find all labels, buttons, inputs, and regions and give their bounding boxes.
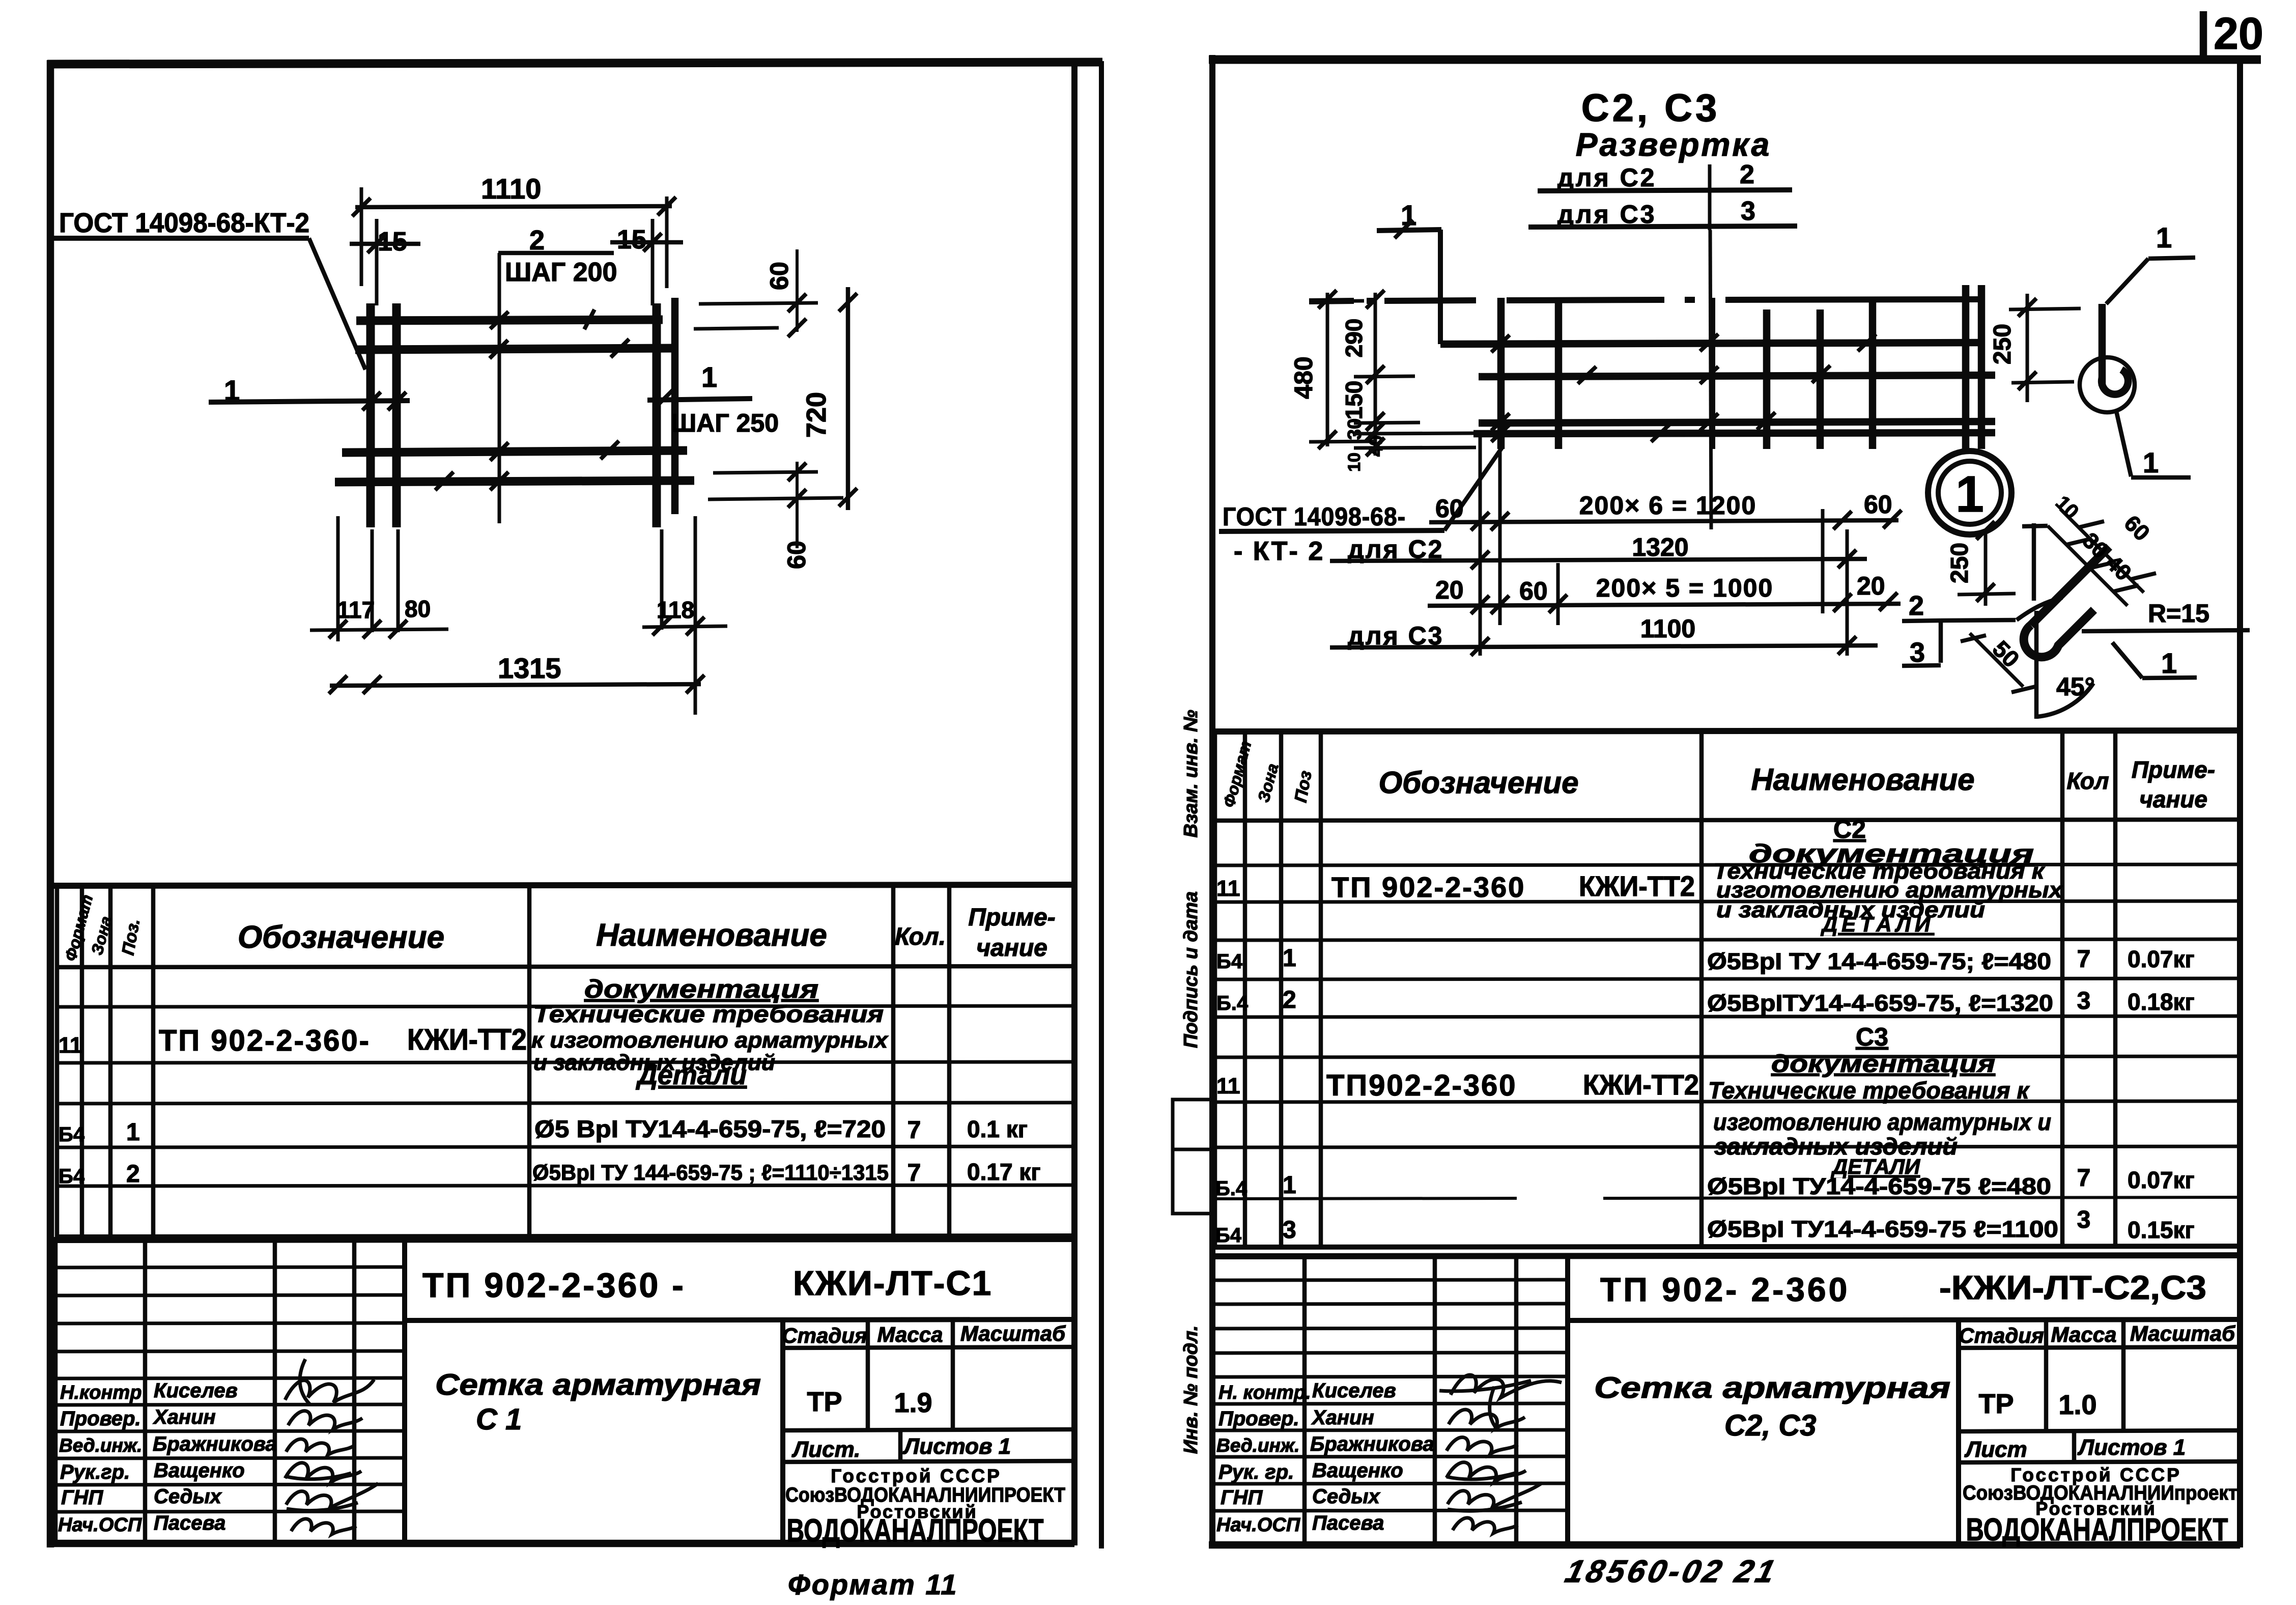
svg-text:Листов 1: Листов 1 bbox=[902, 1434, 1011, 1459]
mesh C1 vertical wire b bbox=[392, 303, 401, 527]
svg-text:ГНП: ГНП bbox=[1221, 1486, 1263, 1509]
variant table dlya S2 / dlya S3 bbox=[1528, 160, 1797, 230]
left table row: documentation header bbox=[531, 975, 889, 1075]
svg-text:2: 2 bbox=[1283, 987, 1296, 1013]
svg-text:Седых: Седых bbox=[154, 1485, 222, 1508]
svg-text:1: 1 bbox=[1955, 466, 1984, 523]
dimension 117 bbox=[310, 597, 448, 638]
svg-text:1: 1 bbox=[701, 361, 717, 393]
svg-text:Стадия: Стадия bbox=[1959, 1324, 2044, 1347]
fold line (dash-dot) bbox=[1309, 299, 1978, 301]
svg-text:Ø5ВрI ТУ 14-4-659-75; ℓ=480: Ø5ВрI ТУ 14-4-659-75; ℓ=480 bbox=[1707, 948, 2051, 974]
svg-text:1.9: 1.9 bbox=[894, 1388, 932, 1418]
svg-text:Ø5ВрI ТУ14-4-659-75 ℓ=480: Ø5ВрI ТУ14-4-659-75 ℓ=480 bbox=[1707, 1173, 2051, 1199]
svg-text:ДЕТАЛИ: ДЕТАЛИ bbox=[1821, 912, 1934, 936]
dimension 60 top right (rotated) bbox=[694, 249, 818, 337]
svg-text:60: 60 bbox=[1435, 494, 1464, 523]
svg-text:КЖИ-ТТ2: КЖИ-ТТ2 bbox=[1583, 1068, 1699, 1101]
svg-text:ТП902-2-360: ТП902-2-360 bbox=[1326, 1069, 1517, 1102]
svg-text:150: 150 bbox=[1341, 381, 1367, 420]
svg-text:Кол: Кол bbox=[2066, 768, 2109, 794]
svg-text:ГНП: ГНП bbox=[61, 1486, 103, 1509]
svg-text:Б.4: Б.4 bbox=[1215, 1177, 1248, 1200]
section labels 2 / 3 with bracket bbox=[1902, 590, 2016, 668]
svg-text:С 1: С 1 bbox=[476, 1403, 522, 1436]
svg-text:Госстрой СССР: Госстрой СССР bbox=[831, 1466, 1002, 1486]
svg-text:Ø5 ВрI ТУ14-4-659-75, ℓ=720: Ø5 ВрI ТУ14-4-659-75, ℓ=720 bbox=[534, 1115, 886, 1142]
leader 1 bottom right bbox=[2112, 642, 2197, 679]
svg-text:ВОДОКАНАЛПРОЕКТ: ВОДОКАНАЛПРОЕКТ bbox=[1966, 1512, 2228, 1547]
svg-text:Обозначение: Обозначение bbox=[238, 920, 444, 955]
left stadia box bbox=[782, 1318, 1074, 1548]
R=15 label bbox=[2082, 599, 2250, 631]
section mark 1 top left (right sheet) bbox=[1377, 199, 1441, 238]
left signatures bbox=[285, 1359, 378, 1534]
dim row 20 | 60 | 200x5=1000 | 20 bbox=[1428, 572, 1901, 614]
svg-text:11: 11 bbox=[1216, 1074, 1240, 1099]
svg-text:С2, С3: С2, С3 bbox=[1724, 1409, 1817, 1442]
svg-text:Бражникова: Бражникова bbox=[1310, 1433, 1434, 1455]
svg-text:1100: 1100 bbox=[1640, 614, 1695, 643]
right stadia box bbox=[1959, 1319, 2240, 1547]
svg-text:к изготовлению арматурных: к изготовлению арматурных bbox=[531, 1028, 889, 1053]
svg-text:0.15кг: 0.15кг bbox=[2128, 1217, 2195, 1243]
svg-text:КЖИ-ТТ2: КЖИ-ТТ2 bbox=[1579, 870, 1695, 902]
svg-text:Сетка арматурная: Сетка арматурная bbox=[1594, 1371, 1950, 1404]
svg-text:60: 60 bbox=[1519, 577, 1548, 605]
svg-text:7: 7 bbox=[2077, 946, 2091, 973]
svg-text:КЖИ-ТТ2: КЖИ-ТТ2 bbox=[407, 1023, 527, 1056]
dimension extension verticals bbox=[1480, 437, 1847, 656]
svg-text:R=15: R=15 bbox=[2148, 599, 2209, 628]
svg-text:ТП 902-2-360: ТП 902-2-360 bbox=[1331, 871, 1525, 903]
svg-text:Б.4: Б.4 bbox=[1216, 992, 1249, 1015]
svg-text:ТП 902-2-360-: ТП 902-2-360- bbox=[159, 1024, 371, 1057]
svg-text:Рук.гр.: Рук.гр. bbox=[60, 1461, 130, 1483]
GOST 14098-68--KT-2 label (right sheet) bbox=[1219, 447, 1503, 566]
svg-text:Наименование: Наименование bbox=[596, 918, 827, 953]
svg-text:200× 5 = 1000: 200× 5 = 1000 bbox=[1596, 574, 1774, 602]
svg-text:290: 290 bbox=[1341, 319, 1367, 358]
dimension 118 bbox=[642, 597, 727, 635]
left table detail row 2 bbox=[59, 1159, 1041, 1188]
svg-text:Листов 1: Листов 1 bbox=[2077, 1435, 2186, 1460]
svg-text:ТР: ТР bbox=[807, 1387, 842, 1417]
right signatures bbox=[1439, 1375, 1562, 1533]
svg-text:20: 20 bbox=[1435, 576, 1464, 604]
svg-text:80: 80 bbox=[405, 596, 431, 622]
dimension 1315 bbox=[329, 652, 704, 694]
svg-text:1: 1 bbox=[2161, 647, 2177, 679]
svg-text:20: 20 bbox=[1857, 572, 1885, 600]
right title: Setka armaturnaya S2,S3 bbox=[1594, 1371, 1950, 1442]
svg-text:Стадия: Стадия bbox=[782, 1324, 867, 1347]
top right hook detail bbox=[2080, 221, 2195, 478]
right table detail row 2 bbox=[1216, 987, 2195, 1016]
page number 20 tick bbox=[2200, 11, 2207, 60]
svg-text:1315: 1315 bbox=[498, 652, 561, 684]
svg-text:11: 11 bbox=[59, 1033, 82, 1058]
svg-text:ШАГ 200: ШАГ 200 bbox=[505, 258, 617, 287]
mesh C1 vertical wire c bbox=[653, 303, 661, 527]
svg-text:ТП 902-2-360 -: ТП 902-2-360 - bbox=[422, 1266, 686, 1305]
svg-text:250: 250 bbox=[1989, 324, 2016, 364]
svg-text:Седых: Седых bbox=[1312, 1485, 1381, 1508]
left sheet outer edge line bbox=[1099, 61, 1104, 1548]
dimension 15 right bbox=[610, 219, 683, 305]
rotated margin labels bbox=[1180, 710, 1202, 1454]
mesh C1 horizontal wire 1 bbox=[356, 320, 663, 321]
svg-text:изготовлению арматурных и: изготовлению арматурных и bbox=[1713, 1109, 2051, 1135]
wire tick marks bbox=[435, 309, 629, 490]
mesh C1 vertical wire a bbox=[366, 303, 375, 527]
right sheet frame bbox=[1209, 55, 2261, 1547]
svg-text:Взам. инв. №: Взам. инв. № bbox=[1180, 710, 1202, 838]
diagonal dims 10 30 40 60 bbox=[2048, 492, 2156, 606]
right name rows bbox=[1216, 1379, 1434, 1536]
svg-text:3: 3 bbox=[1910, 637, 1925, 668]
svg-text:Масса: Масса bbox=[2051, 1322, 2117, 1346]
svg-text:Вед.инж.: Вед.инж. bbox=[59, 1435, 142, 1456]
svg-text:3: 3 bbox=[1283, 1217, 1296, 1244]
svg-text:Технические требования к: Технические требования к bbox=[1708, 1077, 2030, 1104]
left spec table grid bbox=[50, 885, 1074, 1237]
svg-text:Пасева: Пасева bbox=[1312, 1512, 1384, 1534]
diagonal dim 50 bbox=[1961, 633, 2037, 692]
svg-text:Приме-: Приме- bbox=[968, 904, 1055, 931]
mesh S2 bent edge outline bbox=[1438, 230, 1443, 344]
svg-text:Наименование: Наименование bbox=[1751, 763, 1974, 797]
svg-text:Технические требования: Технические требования bbox=[533, 1001, 884, 1027]
right table detail row 3 bbox=[1215, 1165, 2195, 1200]
svg-text:0.07кг: 0.07кг bbox=[2128, 1167, 2195, 1193]
svg-text:Пасева: Пасева bbox=[154, 1512, 225, 1534]
svg-text:ВОДОКАНАЛПРОЕКТ: ВОДОКАНАЛПРОЕКТ bbox=[787, 1513, 1044, 1548]
left name rows bbox=[58, 1379, 277, 1536]
svg-text:2: 2 bbox=[1740, 160, 1754, 189]
svg-text:118: 118 bbox=[657, 597, 694, 623]
mesh C1 horizontal wire 2 bbox=[355, 348, 675, 350]
svg-text:Вед.инж.: Вед.инж. bbox=[1216, 1435, 1299, 1456]
mesh S2 vertical wires bbox=[1501, 285, 1981, 449]
left title block grid bbox=[50, 1239, 1074, 1543]
right spec table grid bbox=[1212, 730, 2240, 1247]
svg-text:7: 7 bbox=[908, 1117, 921, 1144]
svg-text:ТР: ТР bbox=[1978, 1389, 2014, 1419]
section line 1-1 left bbox=[209, 374, 410, 410]
svg-text:документация: документация bbox=[584, 975, 818, 1003]
mesh C1 horizontal wire 4 bbox=[335, 481, 694, 482]
svg-text:Рук. гр.: Рук. гр. bbox=[1218, 1461, 1294, 1483]
svg-text:Обозначение: Обозначение bbox=[1378, 766, 1578, 800]
svg-text:Б4: Б4 bbox=[1216, 950, 1243, 973]
dimension 15 left bbox=[350, 219, 420, 305]
svg-text:10: 10 bbox=[1345, 453, 1364, 472]
svg-text:С3: С3 bbox=[1856, 1023, 1888, 1051]
top right hook dim 250 bbox=[1989, 294, 2081, 402]
left table row TP 902-2-360 bbox=[59, 1023, 527, 1058]
right table detail row 1 bbox=[1216, 945, 2195, 974]
margin boxes left of right frame bbox=[1173, 1100, 1212, 1214]
long leader line down from variant table bbox=[1710, 230, 1711, 529]
svg-text:1: 1 bbox=[2156, 221, 2172, 254]
svg-text:-КЖИ-ЛТ-С2,С3: -КЖИ-ЛТ-С2,С3 bbox=[1939, 1269, 2206, 1306]
left sheet frame bbox=[47, 60, 1102, 1547]
svg-text:60: 60 bbox=[1864, 490, 1892, 519]
svg-text:Ващенко: Ващенко bbox=[154, 1459, 245, 1482]
right table S2 section bbox=[1749, 815, 2034, 868]
svg-text:Масштаб: Масштаб bbox=[2130, 1321, 2235, 1345]
bent wire detail (45 deg) bbox=[2017, 523, 2109, 657]
svg-text:Приме-: Приме- bbox=[2132, 756, 2215, 783]
svg-text:1.0: 1.0 bbox=[2058, 1390, 2096, 1420]
svg-text:7: 7 bbox=[908, 1160, 921, 1187]
svg-text:1: 1 bbox=[1283, 1172, 1296, 1199]
mesh C1 vertical wire d bbox=[671, 298, 679, 514]
svg-text:0.1 кг: 0.1 кг bbox=[967, 1116, 1028, 1142]
svg-text:1: 1 bbox=[1283, 945, 1296, 972]
ShAG 200 label box bbox=[498, 253, 617, 523]
dimension 1110 (left mesh) bbox=[352, 173, 676, 288]
svg-text:117: 117 bbox=[337, 597, 375, 623]
dim row dlya S2 1320 bbox=[1330, 533, 1867, 569]
svg-text:Н.контр: Н.контр bbox=[60, 1382, 141, 1403]
right table row TP 902-2-360 (2) bbox=[1216, 1068, 2051, 1178]
bottom hook detail dim 250 bbox=[1946, 521, 2016, 606]
svg-text:720: 720 bbox=[801, 392, 832, 438]
svg-text:Ø5ВрIТУ14-4-659-75, ℓ=1320: Ø5ВрIТУ14-4-659-75, ℓ=1320 bbox=[1707, 990, 2053, 1016]
svg-text:Ханин: Ханин bbox=[153, 1406, 216, 1428]
svg-text:2: 2 bbox=[1909, 590, 1924, 621]
detail circle 1 (big) bbox=[1928, 451, 2011, 534]
mesh S2 wire ticks bbox=[1491, 334, 1876, 442]
section label 1 / ShAG 250 right bbox=[647, 361, 779, 437]
svg-text:Б4: Б4 bbox=[1215, 1224, 1242, 1247]
svg-text:Подпись и дата: Подпись и дата bbox=[1180, 891, 1202, 1048]
svg-text:0.18кг: 0.18кг bbox=[2128, 989, 2195, 1015]
svg-text:для С2: для С2 bbox=[1557, 163, 1656, 192]
svg-text:Б4: Б4 bbox=[59, 1123, 85, 1146]
left title: Setka armaturnaya S1 bbox=[435, 1368, 761, 1436]
svg-text:документация: документация bbox=[1771, 1051, 1995, 1078]
right table detail row 4 bbox=[1215, 1206, 2195, 1247]
svg-text:ГОСТ 14098-68-КТ-2: ГОСТ 14098-68-КТ-2 bbox=[59, 208, 309, 238]
svg-text:Инв. № подл.: Инв. № подл. bbox=[1180, 1326, 1202, 1454]
svg-text:Ващенко: Ващенко bbox=[1312, 1459, 1403, 1482]
dimension 720 (rotated) bbox=[801, 287, 857, 510]
dim row 60 | 200x6=1200 | 60 bbox=[1429, 490, 1902, 530]
svg-text:Ø5ВрI ТУ 144-659-75 ; ℓ=1110÷1: Ø5ВрI ТУ 144-659-75 ; ℓ=1110÷1315 bbox=[532, 1161, 889, 1185]
right table row TP 902-2-360 (1) bbox=[1216, 859, 2063, 936]
svg-text:Провер.: Провер. bbox=[1218, 1407, 1299, 1430]
svg-text:ТП 902- 2-360: ТП 902- 2-360 bbox=[1600, 1271, 1850, 1308]
lower extension lines bbox=[338, 516, 695, 715]
svg-text:Ø5ВрI ТУ14-4-659-75 ℓ=1100: Ø5ВрI ТУ14-4-659-75 ℓ=1100 bbox=[1707, 1216, 2058, 1242]
svg-text:ШАГ 250: ШАГ 250 bbox=[671, 409, 779, 437]
svg-text:250: 250 bbox=[1946, 543, 1973, 583]
right table S3 section bbox=[1771, 1023, 1995, 1078]
svg-text:С2, С3: С2, С3 bbox=[1581, 87, 1720, 130]
mesh S2 horizontal wire 2 bbox=[1440, 343, 1978, 344]
mesh S2 horizontal wire 3 bbox=[1479, 375, 1995, 377]
svg-text:Нач.ОСП: Нач.ОСП bbox=[1216, 1514, 1300, 1536]
svg-text:2: 2 bbox=[126, 1161, 140, 1188]
svg-text:Детали: Детали bbox=[636, 1060, 747, 1090]
svg-text:1320: 1320 bbox=[1632, 533, 1688, 561]
svg-text:0.17 кг: 0.17 кг bbox=[967, 1159, 1041, 1185]
svg-text:Сетка арматурная: Сетка арматурная bbox=[435, 1368, 761, 1401]
svg-text:3: 3 bbox=[2077, 1206, 2091, 1233]
svg-text:3: 3 bbox=[1741, 196, 1755, 226]
chain dimensions 290 150 30 40 10 (rotated) bbox=[1341, 290, 1476, 472]
svg-text:Провер.: Провер. bbox=[60, 1407, 141, 1430]
svg-text:45°: 45° bbox=[2056, 672, 2095, 701]
svg-text:Б4: Б4 bbox=[59, 1165, 85, 1188]
svg-text:Кол.: Кол. bbox=[895, 923, 946, 950]
mesh C1 horizontal wire 3 bbox=[342, 450, 687, 453]
svg-text:Развертка: Развертка bbox=[1576, 126, 1771, 163]
right table header texts bbox=[1220, 739, 2215, 812]
svg-text:200× 6 = 1200: 200× 6 = 1200 bbox=[1579, 491, 1757, 520]
svg-text:1: 1 bbox=[2143, 446, 2159, 478]
svg-text:15: 15 bbox=[617, 225, 646, 255]
svg-text:60: 60 bbox=[765, 262, 793, 290]
left chain dimension 480 (rotated) bbox=[1289, 290, 1374, 449]
dim row dlya S3 1100 bbox=[1330, 614, 1878, 656]
svg-text:- КТ- 2: - КТ- 2 bbox=[1234, 537, 1324, 566]
left table header texts bbox=[61, 892, 1056, 963]
svg-text:чание: чание bbox=[976, 935, 1047, 962]
svg-text:7: 7 bbox=[2077, 1165, 2091, 1192]
svg-text:0.07кг: 0.07кг bbox=[2128, 946, 2195, 972]
svg-text:Н. контр.: Н. контр. bbox=[1218, 1382, 1311, 1403]
svg-text:Лист: Лист bbox=[1964, 1437, 2027, 1462]
svg-text:Ханин: Ханин bbox=[1311, 1406, 1374, 1429]
svg-text:чание: чание bbox=[2139, 786, 2207, 812]
svg-text:480: 480 bbox=[1289, 356, 1318, 399]
svg-text:Киселев: Киселев bbox=[154, 1379, 238, 1402]
svg-text:Лист.: Лист. bbox=[791, 1437, 860, 1462]
left table detail row 1 bbox=[59, 1115, 1028, 1146]
svg-text:18560-02 21: 18560-02 21 bbox=[1562, 1554, 1781, 1589]
svg-text:КЖИ-ЛТ-С1: КЖИ-ЛТ-С1 bbox=[793, 1264, 992, 1303]
svg-text:1: 1 bbox=[126, 1119, 140, 1146]
right title block grid bbox=[1212, 1255, 2240, 1545]
svg-text:Бражникова: Бражникова bbox=[153, 1433, 277, 1455]
svg-text:Киселев: Киселев bbox=[1312, 1379, 1396, 1402]
svg-text:Масса: Масса bbox=[877, 1322, 943, 1346]
mesh S2 horizontal wire 5 bbox=[1473, 433, 1995, 434]
mesh S2 horizontal wire 4 bbox=[1479, 421, 1995, 423]
svg-text:Масштаб: Масштаб bbox=[960, 1321, 1066, 1345]
svg-text:Нач.ОСП: Нач.ОСП bbox=[58, 1514, 142, 1536]
svg-text:Формат 11: Формат 11 bbox=[788, 1568, 958, 1600]
svg-text:ГОСТ 14098-68-: ГОСТ 14098-68- bbox=[1223, 502, 1406, 531]
svg-text:11: 11 bbox=[1216, 876, 1240, 901]
svg-text:20: 20 bbox=[2214, 8, 2263, 59]
svg-text:1110: 1110 bbox=[481, 173, 541, 205]
svg-text:3: 3 bbox=[2077, 988, 2091, 1015]
45 deg arc and label bbox=[2036, 611, 2095, 719]
dimension 60 bottom right (rotated) bbox=[708, 462, 843, 569]
GOST 14098-68-KT-2 label (left sheet) bbox=[54, 208, 365, 370]
